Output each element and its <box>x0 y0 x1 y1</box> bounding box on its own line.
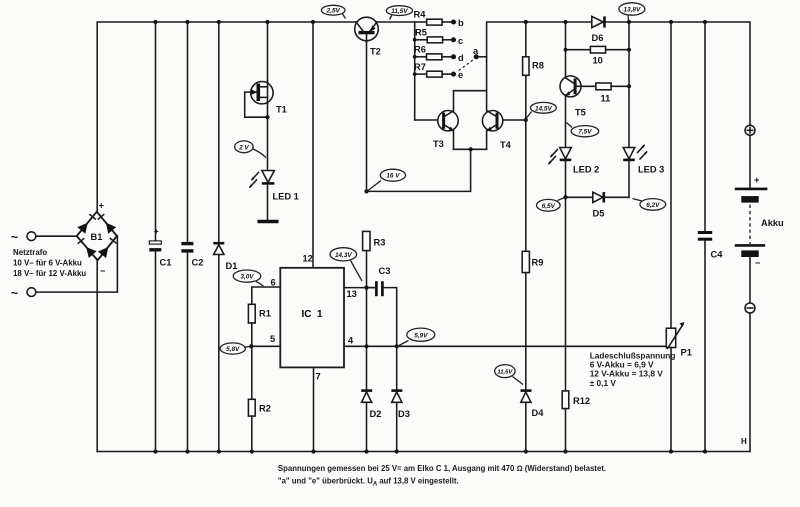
voltage 13,8V <box>619 3 645 21</box>
diode D3 <box>391 346 409 451</box>
ground bar under LED1 <box>258 220 279 223</box>
node junction C1 bottom <box>153 449 157 453</box>
resistor R5 <box>413 28 463 46</box>
node junction P1 top <box>669 20 673 24</box>
voltage 3,0V <box>233 270 263 287</box>
voltage 14,3V <box>330 248 362 281</box>
transistor T5 <box>560 22 586 148</box>
svg-text:b: b <box>458 18 464 28</box>
svg-text:C1: C1 <box>160 258 172 268</box>
svg-text:T4: T4 <box>500 140 512 150</box>
svg-text:IC: IC <box>302 309 312 320</box>
svg-text:12: 12 <box>303 254 313 264</box>
svg-text:2,5V: 2,5V <box>326 8 341 15</box>
voltage 11,5V top <box>386 6 412 20</box>
node T4 base junction <box>524 118 528 122</box>
label Netztrafo <box>13 248 86 278</box>
svg-text:5,8V: 5,8V <box>226 346 240 353</box>
svg-text:R1: R1 <box>259 309 271 319</box>
svg-text:16 V: 16 V <box>386 173 400 180</box>
node junction C2 top <box>185 20 189 24</box>
voltage 5,8V <box>220 343 249 354</box>
resistor R6 <box>413 45 464 63</box>
svg-text:5,9V: 5,9V <box>414 332 428 339</box>
wire pin 6 <box>252 287 280 304</box>
wire pin 7 <box>313 367 315 451</box>
node pin5 junction <box>249 344 253 348</box>
wire emitter bus to T3 T4 <box>367 149 471 191</box>
svg-text:R6: R6 <box>414 45 426 55</box>
svg-text:C2: C2 <box>192 258 204 268</box>
transistor T1 <box>245 22 287 171</box>
node res10 left junction <box>564 48 568 52</box>
svg-text:d: d <box>458 53 464 63</box>
battery Akku <box>735 175 784 268</box>
LED LED1 <box>249 171 299 220</box>
node C3-D3 junction <box>395 344 399 348</box>
svg-text:± 0,1 V: ± 0,1 V <box>590 378 617 388</box>
svg-text:LED 3: LED 3 <box>638 165 664 175</box>
battery minus terminal <box>745 257 755 452</box>
svg-text:4: 4 <box>348 336 354 346</box>
wire R3 to pin13 node <box>366 251 368 288</box>
svg-text:11: 11 <box>601 94 611 104</box>
svg-text:LED 1: LED 1 <box>273 192 299 202</box>
diode D1 <box>213 22 237 452</box>
svg-text:2 V: 2 V <box>238 144 249 151</box>
svg-text:R8: R8 <box>532 61 544 71</box>
svg-text:Spannungen gemessen bei 25 V=: Spannungen gemessen bei 25 V= am Elko C … <box>278 464 606 473</box>
svg-text:+: + <box>99 201 105 211</box>
svg-text:T5: T5 <box>575 108 586 118</box>
svg-text:C3: C3 <box>379 266 391 276</box>
svg-text:Akku: Akku <box>761 218 784 228</box>
resistor R12 <box>562 197 590 451</box>
svg-text:11,5V: 11,5V <box>497 370 513 376</box>
svg-text:1: 1 <box>317 309 323 320</box>
voltage 5,9V <box>399 328 435 345</box>
wire B1 bottom <box>96 260 98 451</box>
svg-text:R2: R2 <box>259 404 271 414</box>
node junction C4 top <box>703 20 707 24</box>
svg-text:C4: C4 <box>711 250 724 260</box>
resistor R8 <box>523 22 544 120</box>
AC terminal 2 <box>11 236 117 300</box>
node junction T1 top <box>265 20 269 24</box>
wire collector tie T3 T4 <box>454 91 487 111</box>
voltage 14,5V <box>527 102 557 118</box>
transistor T3 <box>415 111 458 150</box>
node junction D1 top <box>217 20 221 24</box>
capacitor C4 <box>698 22 723 452</box>
svg-text:R7: R7 <box>414 62 426 72</box>
transistor T2 <box>355 17 381 56</box>
wire T2 base down <box>366 42 368 191</box>
wire R4-R7 bus <box>414 22 416 120</box>
wire C3 right down to pin4 rail <box>384 288 397 347</box>
svg-text:−: − <box>755 258 761 268</box>
wire pin 13 <box>344 287 375 289</box>
LED LED3 <box>623 144 664 197</box>
node junction C2 bottom <box>185 449 189 453</box>
voltage 16V <box>368 169 406 190</box>
node emitter junction <box>469 147 473 151</box>
svg-text:11,5V: 11,5V <box>391 8 408 15</box>
diode D2 <box>361 288 381 452</box>
node pin13 junction <box>364 286 368 290</box>
resistor R7 <box>413 62 463 80</box>
diode D5 <box>566 192 630 218</box>
AC terminal 1 <box>11 230 77 244</box>
resistor 11 <box>575 83 631 104</box>
svg-text:B1: B1 <box>91 232 103 242</box>
bridge rectifier B1 <box>77 212 117 261</box>
svg-text:R4: R4 <box>414 10 427 20</box>
svg-text:T3: T3 <box>433 139 444 149</box>
node junction pin12 top <box>311 20 315 24</box>
wire pin 5 <box>251 345 280 347</box>
wire IC pin 12 <box>303 22 314 268</box>
svg-text:6,2V: 6,2V <box>646 202 660 209</box>
resistor R3 <box>363 231 386 250</box>
node junction D3 bottom <box>395 449 399 453</box>
label Ladeschlussspannung <box>590 351 676 389</box>
svg-text:+: + <box>154 227 159 236</box>
LED LED2 <box>548 148 599 198</box>
svg-text:D3: D3 <box>398 409 410 419</box>
voltage 7,5V <box>567 123 599 137</box>
svg-text:c: c <box>458 36 463 46</box>
svg-text:R3: R3 <box>374 238 386 248</box>
node junction 13.8V <box>627 20 631 24</box>
svg-text:T2: T2 <box>370 47 381 57</box>
potentiometer P1 <box>666 22 692 452</box>
resistor 10 <box>566 46 632 65</box>
svg-text:13: 13 <box>347 289 357 299</box>
node 16V junction <box>364 189 368 193</box>
node junction R8 top <box>524 20 528 24</box>
svg-text:12 V-Akku = 13,8 V: 12 V-Akku = 13,8 V <box>590 369 664 379</box>
wire pin 4 feedback <box>344 345 666 347</box>
svg-text:D5: D5 <box>593 209 605 219</box>
node junction D2 bottom <box>364 449 368 453</box>
svg-text:13,8V: 13,8V <box>624 7 641 14</box>
svg-text:R9: R9 <box>532 258 544 268</box>
voltage 6,2V <box>633 199 666 211</box>
svg-text:D2: D2 <box>370 409 382 419</box>
node junction C1 top <box>153 20 157 24</box>
node junction R12 bottom <box>563 449 567 453</box>
diode D4 <box>521 391 545 452</box>
node junction D1 bottom <box>217 449 221 453</box>
switch selector a <box>458 46 487 72</box>
capacitor C1 <box>149 22 171 452</box>
node junction D4 bottom <box>524 449 528 453</box>
svg-text:T1: T1 <box>276 105 287 115</box>
svg-text:+: + <box>754 175 760 185</box>
wire top rail right <box>487 22 750 125</box>
svg-text:P1: P1 <box>681 348 692 358</box>
wire LED3 branch <box>628 22 630 148</box>
capacitor C2 <box>181 22 203 452</box>
diode D6 <box>592 16 605 43</box>
resistor R4 <box>414 10 465 29</box>
svg-text:10 V– für 6 V-Akku: 10 V– für 6 V-Akku <box>13 259 82 268</box>
node junction pin7 bottom <box>311 449 315 453</box>
svg-text:R12: R12 <box>573 396 590 406</box>
svg-text:5: 5 <box>270 334 275 344</box>
voltage 2V <box>235 141 266 158</box>
svg-text:7: 7 <box>316 372 321 382</box>
battery plus terminal <box>745 125 755 187</box>
node junction P1 bottom <box>669 449 673 453</box>
svg-text:Netztrafo: Netztrafo <box>13 248 47 257</box>
op-amp IC1 box <box>280 268 344 368</box>
node LED2 D5 junction <box>563 195 567 199</box>
svg-text:6: 6 <box>271 278 276 288</box>
node junction C4 bottom <box>703 449 707 453</box>
voltage 11,5V at D4 <box>495 365 523 385</box>
svg-text:6,5V: 6,5V <box>542 203 556 210</box>
svg-text:D1: D1 <box>226 261 238 271</box>
node junction T5 top <box>563 20 567 24</box>
svg-text:10: 10 <box>593 56 603 66</box>
wire bottom rail <box>97 451 750 453</box>
wire R1 to pin5 <box>251 323 253 346</box>
svg-text:14,5V: 14,5V <box>535 105 552 112</box>
capacitor C3 <box>367 266 391 296</box>
svg-text:−: − <box>100 266 106 276</box>
voltage 6,5V <box>537 198 564 211</box>
wire emitter tie <box>454 148 487 150</box>
svg-text:~: ~ <box>11 286 18 300</box>
resistor R2 <box>248 346 270 451</box>
svg-text:D4: D4 <box>532 408 545 418</box>
resistor R1 <box>248 304 270 323</box>
node junction R2 bottom <box>250 449 254 453</box>
svg-text:LED 2: LED 2 <box>573 165 599 175</box>
svg-text:~: ~ <box>11 230 18 244</box>
svg-text:H: H <box>741 437 747 446</box>
resistor R9 <box>522 120 543 391</box>
svg-text:18 V– für 12 V-Akku: 18 V– für 12 V-Akku <box>13 269 86 278</box>
svg-text:e: e <box>458 70 463 80</box>
svg-text:R5: R5 <box>415 28 427 38</box>
voltage 2,5V <box>321 5 345 18</box>
svg-text:14,3V: 14,3V <box>335 252 352 259</box>
svg-text:7,5V: 7,5V <box>578 129 592 136</box>
wire top rail left <box>97 22 415 212</box>
transistor T4 <box>482 111 525 151</box>
node D2 pin4 junction <box>364 344 368 348</box>
svg-text:3,0V: 3,0V <box>240 274 254 281</box>
svg-text:D6: D6 <box>592 33 604 43</box>
